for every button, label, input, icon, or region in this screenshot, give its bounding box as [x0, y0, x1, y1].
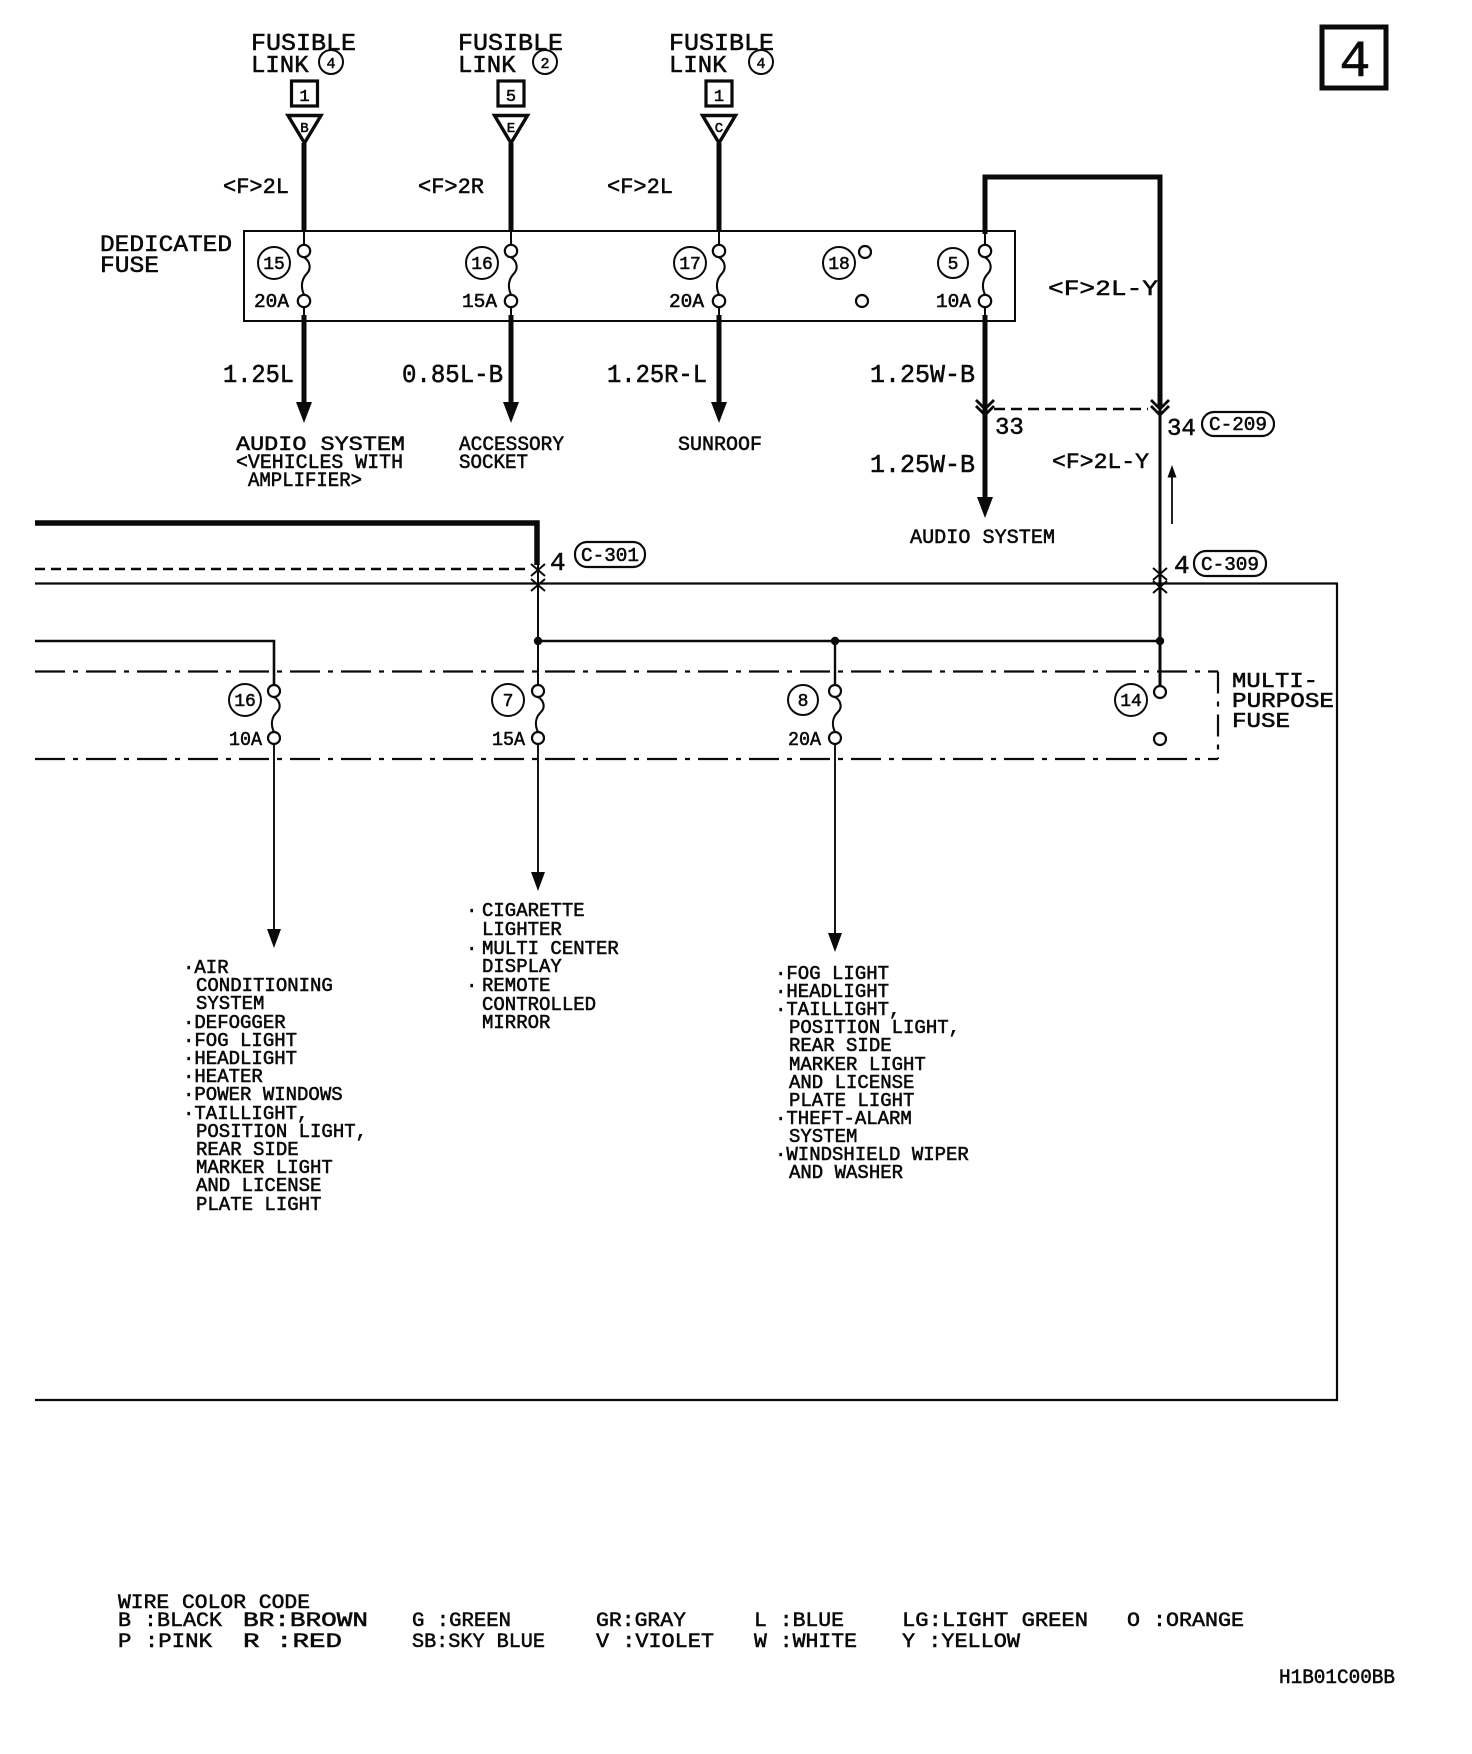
circled number 2 (fusible link E) [533, 50, 557, 74]
svg-text:<F>2R: <F>2R [418, 175, 484, 200]
svg-text:W :WHITE: W :WHITE [754, 1631, 857, 1654]
svg-text:C-309: C-309 [1201, 554, 1259, 576]
load label audio system (vehicles with amplifier) [236, 434, 405, 493]
wire 34 continuing down to C-309 and fuse 14 [1159, 406, 1162, 686]
multi-purpose fuse block outline box [35, 584, 1337, 1401]
fusible link terminal triangle E [495, 116, 528, 144]
svg-text:1.25W-B: 1.25W-B [870, 360, 975, 390]
connector C-301 crossing marks [531, 564, 545, 591]
fuse F15 number [258, 247, 290, 279]
svg-text:C: C [715, 121, 723, 137]
wire from fuse 5 to audio system with arrow [977, 306, 993, 518]
fuse F14 terminals [1154, 686, 1166, 745]
wire to audio system (amplifier) with arrow [296, 306, 312, 423]
svg-text:4: 4 [326, 56, 335, 73]
wire drop to fuse 8 [834, 641, 836, 685]
svg-text:LINK: LINK [458, 53, 516, 80]
fuse F18 empty position terminals [856, 246, 871, 307]
direction arrow up alongside wire 34 [1168, 465, 1177, 524]
fuse F14 number [1115, 684, 1147, 716]
wire from fuse 7 to loads with arrow [531, 744, 545, 891]
fuse F5 [979, 245, 991, 307]
wire from triangle C to dedicated fuse box [717, 143, 722, 246]
fusible link terminal triangle B [288, 116, 321, 144]
svg-text:B :BLACK: B :BLACK [118, 1610, 222, 1633]
svg-text:4: 4 [1174, 551, 1190, 581]
svg-text:R :RED: R :RED [243, 1631, 342, 1654]
svg-text:1: 1 [714, 88, 724, 107]
connector C-209 chevron on wire 34 [1151, 400, 1169, 415]
connector label C-209 [1202, 412, 1274, 436]
svg-text:20A: 20A [254, 291, 290, 313]
svg-text:L :BLUE: L :BLUE [754, 1610, 844, 1633]
fuse F15 [298, 245, 310, 307]
svg-text:14: 14 [1120, 692, 1142, 712]
fuse F17 number [674, 247, 706, 279]
wire to sunroof with arrow [711, 306, 727, 423]
junction node at fuse 7 [534, 637, 542, 645]
fuse F16 (multi-purpose) [268, 685, 280, 744]
svg-text:<F>2L: <F>2L [607, 175, 673, 200]
fusible link 4 label (column B) [251, 31, 356, 80]
fuse F8 number [788, 685, 818, 715]
svg-text:FUSE: FUSE [100, 253, 159, 279]
dashed companion line into C-301 [35, 568, 529, 570]
fusible link 2 label (column E) [458, 31, 563, 80]
svg-text:GR:GRAY: GR:GRAY [596, 1610, 686, 1633]
connector C-209 chevron on wire 33 [976, 400, 994, 415]
load list for fuse 16 [183, 957, 367, 1216]
svg-text:·: · [466, 975, 477, 997]
svg-text:20A: 20A [669, 291, 705, 313]
svg-text:2: 2 [540, 56, 549, 73]
fuse F17 [713, 245, 725, 307]
svg-text:1.25W-B: 1.25W-B [870, 450, 975, 480]
svg-text:1.25L: 1.25L [223, 360, 294, 390]
svg-text:4: 4 [550, 548, 566, 578]
svg-text:SB:SKY BLUE: SB:SKY BLUE [412, 1631, 545, 1654]
wire to accessory socket with arrow [503, 306, 519, 423]
thick feed wire to fuse 5 and C-209 branch [985, 177, 1160, 406]
fuse F7 [532, 685, 544, 744]
svg-text:·: · [466, 938, 477, 960]
junction node at fuse 8 [831, 637, 839, 645]
connector C-209 dashed link line [994, 408, 1148, 410]
svg-text:10A: 10A [229, 729, 263, 751]
load list for fuse 7 [466, 900, 619, 1034]
junction node at fuse 14 [1156, 637, 1164, 645]
multi-purpose fuse strip upper dash-dot line [35, 670, 1218, 672]
svg-text:G :GREEN: G :GREEN [412, 1610, 511, 1633]
page number box 4 [1322, 27, 1386, 92]
legend row 2 [118, 1631, 1020, 1654]
svg-text:LINK: LINK [669, 53, 727, 80]
svg-text:H1B01C00BB: H1B01C00BB [1279, 1667, 1395, 1690]
thick battery bus wire to C-301 [35, 523, 537, 565]
svg-text:AMPLIFIER>: AMPLIFIER> [248, 470, 362, 493]
multi-purpose fuse strip right dash-dot edge [1217, 672, 1219, 760]
connector box 1 (column C) [706, 81, 732, 107]
svg-text:MIRROR: MIRROR [482, 1012, 550, 1034]
connector box 1 (column B) [292, 81, 318, 107]
wire bus from C-301 node to fuse 14 node [538, 640, 1160, 643]
svg-text:FUSE: FUSE [1232, 711, 1290, 734]
circled number 4 (fusible link C) [749, 50, 773, 74]
legend row 1 [118, 1610, 1244, 1633]
svg-text:16: 16 [471, 255, 493, 275]
svg-text:17: 17 [679, 255, 701, 275]
circled number 4 (fusible link B) [319, 50, 343, 74]
svg-text:LG:LIGHT GREEN: LG:LIGHT GREEN [902, 1610, 1088, 1633]
wire bus to fuse 16 [35, 641, 274, 685]
label DEDICATED FUSE [100, 232, 232, 279]
svg-text:7: 7 [503, 692, 514, 712]
load label accessory socket [459, 434, 564, 475]
svg-text:<F>2L: <F>2L [223, 175, 289, 200]
svg-text:<F>2L-Y: <F>2L-Y [1048, 277, 1158, 302]
fuse F16 number (dedicated) [466, 247, 498, 279]
fusible link 4 label (column C) [669, 31, 774, 80]
wire from C-301 down to fuse 7 [537, 565, 539, 685]
svg-text:4: 4 [1339, 33, 1370, 92]
fuse F5 number [938, 248, 968, 278]
connector box 5 (column E) [498, 81, 524, 107]
svg-text:4: 4 [756, 56, 765, 73]
svg-text:V :VIOLET: V :VIOLET [596, 1631, 714, 1654]
svg-text:16: 16 [234, 692, 256, 712]
svg-text:PLATE LIGHT: PLATE LIGHT [196, 1194, 321, 1216]
svg-text:20A: 20A [788, 729, 822, 751]
connector label C-301 [575, 542, 645, 567]
svg-text:AND WASHER: AND WASHER [789, 1162, 903, 1184]
fuse F18 number [823, 247, 855, 279]
svg-text:15A: 15A [492, 729, 526, 751]
svg-text:AUDIO SYSTEM: AUDIO SYSTEM [910, 527, 1055, 550]
connector C-309 crossing marks [1153, 568, 1167, 593]
svg-text:E: E [507, 121, 515, 137]
svg-text:8: 8 [798, 692, 809, 712]
svg-text:C-209: C-209 [1209, 414, 1267, 436]
svg-text:SUNROOF: SUNROOF [678, 434, 762, 457]
svg-text:18: 18 [828, 255, 850, 275]
wire from junction into fuse 14 [1159, 641, 1161, 686]
fusible link terminal triangle C [703, 116, 736, 144]
svg-text:1: 1 [299, 88, 309, 107]
svg-text:Y :YELLOW: Y :YELLOW [902, 1631, 1020, 1654]
svg-text:O :ORANGE: O :ORANGE [1127, 1610, 1244, 1633]
svg-text:15: 15 [263, 255, 285, 275]
svg-text:34: 34 [1167, 416, 1196, 443]
wire from fuse 8 to loads with arrow [828, 744, 842, 952]
fuse F8 [829, 685, 841, 744]
svg-text:33: 33 [995, 415, 1024, 442]
dedicated fuse box [244, 231, 1015, 321]
svg-text:10A: 10A [936, 291, 972, 313]
svg-text:P :PINK: P :PINK [118, 1631, 212, 1654]
fuse F7 number [492, 684, 524, 716]
svg-text:5: 5 [948, 255, 959, 275]
svg-text:BR:BROWN: BR:BROWN [243, 1610, 368, 1633]
label MULTI-PURPOSE FUSE [1232, 671, 1334, 734]
wire from fuse 16 to loads with arrow [267, 744, 281, 948]
load list for fuse 8 [775, 963, 969, 1184]
svg-text:·: · [466, 900, 477, 922]
svg-text:<F>2L-Y: <F>2L-Y [1052, 450, 1149, 475]
svg-text:SOCKET: SOCKET [459, 452, 528, 475]
fuse F16 (dedicated) [505, 245, 517, 307]
multi-purpose fuse strip lower dash-dot line [35, 758, 1218, 760]
svg-text:0.85L-B: 0.85L-B [402, 360, 503, 390]
svg-text:C-301: C-301 [581, 545, 639, 567]
svg-text:B: B [300, 121, 308, 137]
wire from triangle E to dedicated fuse box [509, 143, 514, 246]
wire from triangle B to dedicated fuse box [302, 143, 307, 246]
svg-text:1.25R-L: 1.25R-L [607, 360, 707, 390]
connector label C-309 [1194, 551, 1266, 576]
svg-text:15A: 15A [462, 291, 498, 313]
svg-text:5: 5 [506, 88, 516, 107]
svg-text:LINK: LINK [251, 53, 309, 80]
fuse F16 number (multi-purpose) [229, 684, 261, 716]
